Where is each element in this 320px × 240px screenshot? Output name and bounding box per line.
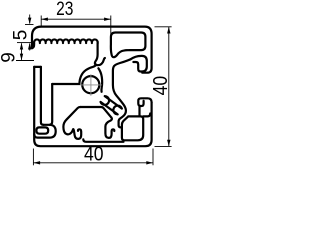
serration end step with J hook: [95, 43, 105, 65]
bottom boot (hat) contour: [80, 107, 111, 118]
svg-text:40: 40: [84, 143, 104, 166]
dim 23 right extension: [110, 16, 112, 35]
dim 40 right bottom extension: [155, 145, 172, 147]
interior ledge wall to boss: [52, 83, 79, 85]
dim 5/9 mid extension: [17, 42, 31, 44]
svg-text:40: 40: [149, 76, 172, 96]
bottom-left tray slot void: [36, 127, 48, 133]
right slot upper lip: [131, 56, 147, 72]
dim 23 line: [41, 18, 111, 20]
arrowhead 9 down: [20, 54, 23, 61]
diagonal bone slot: [101, 96, 122, 114]
arrowhead 23 right: [104, 18, 111, 21]
dim 40 bottom left extension: [32, 149, 34, 166]
boss fillet around bore upper-left: [79, 65, 96, 84]
outer contour top-left, top edge, top-right corner, right face upper: [32, 27, 152, 73]
dim 5 leader below: [29, 44, 31, 51]
dim 40 right line: [168, 27, 170, 146]
dim 23 left extension: [40, 16, 42, 28]
left wall mouth lower lip (top bar of tongue): [34, 66, 41, 68]
bottom right foot: [105, 118, 114, 138]
bottom left foot: [63, 107, 81, 139]
centerline horizontal: [80, 84, 101, 86]
cavity top right extension to face: [143, 114, 150, 117]
dim 5 leader above: [29, 15, 31, 24]
dim 40 bottom right extension: [152, 149, 154, 166]
arrowhead 40 right top: [167, 27, 170, 34]
arrowhead 40 right bottom: [167, 140, 170, 147]
svg-text:5: 5: [11, 30, 32, 41]
bottom inner floor between feet: [83, 139, 123, 142]
dim 5 top extension: [25, 24, 34, 26]
interior vertical wall from ledge: [49, 84, 52, 125]
dim 9 line: [21, 43, 23, 60]
arrowhead 9 up: [20, 43, 23, 50]
top-right cavity with bottom-left dip: [111, 33, 146, 58]
serrated clamping surface: [34, 39, 98, 43]
arrowhead 40 bottom right: [146, 161, 153, 164]
right slot lower lip: [138, 98, 151, 106]
bottom-left tray outer wall: [34, 125, 56, 138]
arrowhead 5 down: [28, 18, 31, 25]
right slot chamber boundary (fin edge): [113, 59, 131, 127]
left mouth upper lip inner edge: [32, 43, 34, 48]
dim 40 right top extension: [155, 26, 172, 28]
boss right side wall: [98, 68, 102, 92]
arrowhead 40 bottom left: [33, 161, 40, 164]
inner left wall (tongue right leg) with bottom hook: [41, 67, 44, 125]
dimension graphics: [16, 15, 172, 166]
svg-text:23: 23: [56, 0, 73, 20]
dim 9 bottom extension: [16, 60, 34, 62]
left face lower + bottom edge + right face lower: [34, 67, 151, 146]
arrowhead 23 left: [41, 18, 48, 21]
centerline vertical: [90, 75, 92, 96]
undercut groove left wall under lower lip: [138, 106, 140, 116]
bottom-right cavity: [122, 116, 143, 140]
svg-text:9: 9: [0, 52, 20, 63]
central bore circle: [82, 76, 99, 93]
arrowhead 5 up: [28, 43, 31, 50]
dim 40 bottom line: [33, 162, 153, 164]
